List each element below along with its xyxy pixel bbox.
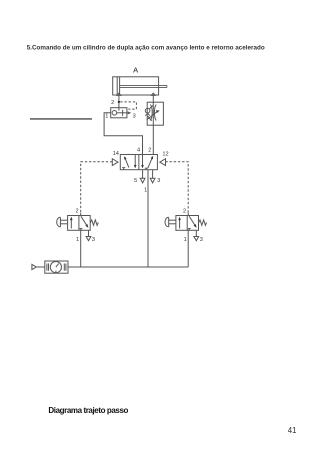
svg-text:5: 5 bbox=[134, 178, 137, 184]
quick-exhaust valve V1 body bbox=[111, 108, 127, 118]
S2 spring bbox=[199, 220, 207, 225]
flow control valve V2 body bbox=[147, 102, 163, 125]
air service unit Z1 bbox=[45, 261, 68, 273]
svg-text:Diagrama trajeto passo: Diagrama trajeto passo bbox=[48, 406, 128, 415]
S1 push button bbox=[60, 219, 67, 221]
check valve seat bbox=[145, 113, 149, 116]
stray annotation line bbox=[30, 118, 92, 120]
svg-text:12: 12 bbox=[162, 151, 168, 157]
throttle arcs bbox=[150, 105, 152, 121]
svg-text:3: 3 bbox=[133, 114, 136, 120]
pilot 12 triangle bbox=[160, 159, 166, 166]
svg-text:5.Comando de um cilindro de du: 5.Comando de um cilindro de dupla ação c… bbox=[27, 44, 265, 51]
wire 5/2 port 1 down to supply rail bbox=[147, 170, 149, 267]
5/2 port 5 exhaust bbox=[142, 170, 144, 179]
svg-text:14: 14 bbox=[113, 151, 119, 157]
svg-text:3: 3 bbox=[157, 178, 160, 184]
S1 port 3 exhaust bbox=[88, 230, 90, 236]
cylinder A piston bbox=[116, 77, 118, 95]
wire cylinder right port through flow control to 5/2 port 2 bbox=[152, 95, 154, 154]
5/2 port 3 exhaust bbox=[152, 170, 154, 179]
svg-text:3: 3 bbox=[92, 237, 95, 243]
valve S1 3/2 body bbox=[68, 216, 91, 231]
pilot 14 triangle bbox=[112, 159, 118, 166]
cylinder A rod bbox=[120, 84, 167, 86]
S1 right cell arrow 2-3 bbox=[81, 216, 87, 225]
wire quick-exhaust port 1 to 5/2 valve port 4 bbox=[104, 113, 142, 155]
svg-text:2: 2 bbox=[148, 147, 151, 153]
cylinder A body bbox=[113, 77, 159, 95]
pilot line 12 dashed bbox=[165, 162, 188, 213]
wire cylinder left port to quick-exhaust valve port 2 bbox=[118, 95, 120, 107]
cylinder A right port arrow bbox=[151, 93, 155, 95]
bypass connectors bbox=[149, 105, 153, 109]
svg-text:1: 1 bbox=[105, 114, 108, 120]
S1 blocked port bbox=[80, 229, 82, 231]
valve 5/2 body bbox=[120, 155, 157, 170]
S2 port 1 wire bbox=[187, 230, 189, 267]
S1 left cell arrow up bbox=[70, 219, 72, 229]
svg-text:2: 2 bbox=[75, 209, 78, 215]
supply rail bbox=[68, 266, 188, 268]
air supply source triangle bbox=[32, 264, 36, 269]
svg-text:1: 1 bbox=[76, 237, 79, 243]
S1 spring bbox=[90, 220, 98, 225]
svg-text:2: 2 bbox=[183, 209, 186, 215]
quick-exhaust valve internal passage bbox=[117, 112, 127, 114]
gauge circle bbox=[50, 262, 61, 273]
svg-text:4: 4 bbox=[137, 147, 140, 153]
S2 left cell arrow up bbox=[179, 219, 181, 229]
S2 push button bbox=[169, 219, 176, 221]
svg-text:A: A bbox=[133, 65, 138, 74]
S2 port 3 exhaust bbox=[195, 230, 197, 236]
5/2 right cell arrows bbox=[142, 155, 144, 166]
valve S2 3/2 body bbox=[176, 216, 199, 231]
S2 right cell arrow 2-3 bbox=[189, 216, 195, 225]
5/2 left cell arrows bbox=[125, 158, 129, 167]
S2 blocked port bbox=[188, 229, 190, 231]
node junction dot bbox=[118, 101, 120, 103]
svg-text:41: 41 bbox=[288, 426, 297, 435]
check valve ball bbox=[145, 108, 150, 113]
S1 port 1 wire bbox=[80, 230, 82, 267]
quick-exhaust valve ball bbox=[112, 111, 117, 116]
svg-text:3: 3 bbox=[200, 237, 203, 243]
adjustment arrow bbox=[147, 112, 158, 120]
quick-exhaust exhaust arrow port 3 bbox=[128, 111, 132, 114]
svg-text:2: 2 bbox=[111, 100, 114, 106]
svg-text:1: 1 bbox=[144, 188, 147, 194]
cylinder A left port arrow bbox=[117, 93, 121, 95]
svg-text:1: 1 bbox=[184, 237, 187, 243]
pilot line 14 dashed bbox=[81, 162, 113, 213]
pilot dashed line of quick-exhaust valve bbox=[120, 102, 136, 109]
